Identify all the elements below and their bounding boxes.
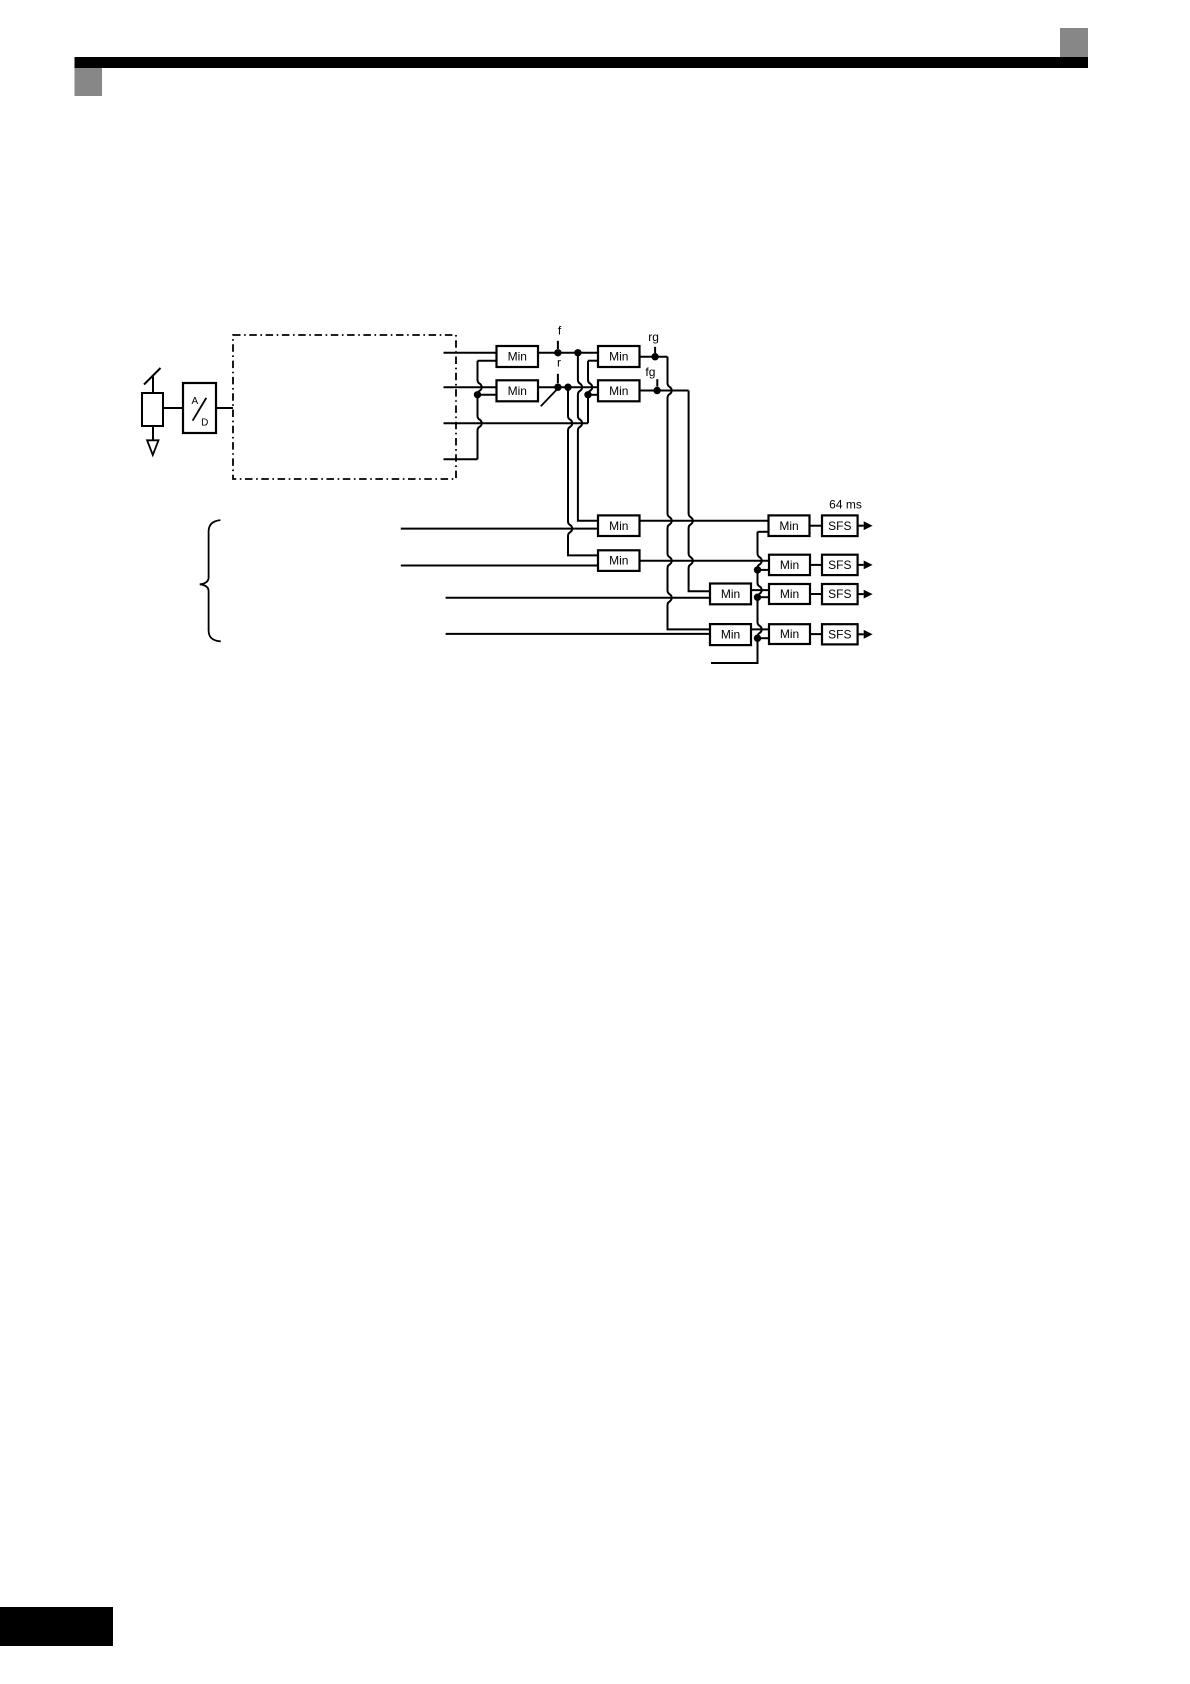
block SFS2 (822, 555, 858, 575)
block SFS1 (822, 515, 858, 536)
wire U3a to U4a (640, 520, 769, 522)
wire U21 output rg (640, 356, 668, 358)
block Min U4a (769, 515, 810, 536)
svg-text:Min: Min (609, 384, 628, 398)
footer page block (0, 1607, 113, 1646)
svg-text:Min: Min (779, 519, 798, 533)
svg-text:Min: Min (508, 384, 527, 398)
wire U4d to SFS4 (810, 633, 822, 635)
wire U4b to SFS2 (810, 564, 822, 566)
svg-text:SFS: SFS (828, 558, 851, 572)
block Min U3d (710, 624, 751, 645)
svg-text:Min: Min (609, 350, 628, 364)
block Min U11 (497, 346, 539, 367)
svg-text:Min: Min (609, 519, 628, 533)
junction dot rg (651, 353, 658, 360)
junction dot chain b (754, 566, 761, 573)
junction dot r branch (564, 384, 571, 391)
svg-text:Min: Min (609, 554, 628, 568)
wire band line 2 (444, 386, 497, 388)
block Min U4c (769, 584, 810, 604)
svg-text:Min: Min (780, 627, 799, 641)
block SFS4 (822, 624, 858, 644)
wire U3c to U4c (751, 589, 769, 591)
junction dot f (554, 349, 561, 356)
wire U3b to U4b (640, 560, 770, 562)
wire band line 1 (444, 352, 497, 354)
junction dot line3 node (584, 391, 591, 398)
wire U4a to SFS1 (810, 525, 823, 527)
wire input line 1 (401, 528, 598, 530)
header tab left (75, 68, 103, 96)
wire rg bus down to U3d (668, 357, 711, 630)
junction dot line4 node (474, 391, 481, 398)
dash-dot filterbank block (233, 335, 456, 479)
junction dot f branch (574, 349, 581, 356)
wire U3d to U4d (751, 628, 769, 630)
wire input line 2 (401, 565, 598, 567)
svg-text:Min: Min (780, 587, 799, 601)
svg-text:Min: Min (721, 628, 740, 642)
svg-text:Min: Min (780, 558, 799, 572)
wire band line 4 (444, 458, 478, 460)
wire antenna to A/D (163, 407, 183, 409)
node rg tick (654, 347, 656, 353)
wire f bus down to U3a (578, 353, 598, 521)
wire A/D to filterbank box (216, 407, 233, 409)
svg-text:SFS: SFS (828, 587, 851, 601)
wire chain bus with hops (711, 532, 769, 663)
wire band line 3 (444, 422, 589, 424)
output arrow 3 (858, 590, 873, 599)
wire line3 riser with hops (588, 361, 598, 424)
svg-text:Min: Min (508, 350, 527, 364)
output arrow 4 (858, 630, 873, 639)
svg-text:fg: fg (645, 365, 655, 379)
svg-text:r: r (557, 355, 561, 369)
wire U12 output to U22 (538, 386, 598, 388)
input group brace (200, 520, 221, 641)
block Min U3b (598, 550, 640, 571)
node r tick (557, 374, 559, 383)
wire fg bus down to U3c (689, 391, 710, 592)
header tab right (1060, 28, 1088, 57)
block Min U3a (598, 515, 640, 536)
svg-text:Min: Min (721, 587, 740, 601)
wire line4 riser with hops (478, 361, 497, 460)
svg-text:rg: rg (648, 330, 659, 344)
block Min U21 (598, 346, 640, 367)
node f tick (557, 341, 559, 349)
output arrow 1 (858, 521, 873, 530)
wire input line 4 (446, 633, 710, 635)
node fg tick (656, 379, 658, 386)
svg-text:64 ms: 64 ms (829, 497, 862, 511)
ground arrow (147, 426, 158, 455)
antenna element box (142, 393, 163, 426)
junction dot r (554, 384, 561, 391)
output arrow 2 (858, 561, 873, 570)
junction dot chain d (754, 635, 761, 642)
block SFS3 (822, 584, 858, 604)
wire U11 output to U21 (538, 352, 598, 354)
svg-text:f: f (558, 324, 562, 338)
svg-text:SFS: SFS (828, 519, 851, 533)
switch arm (541, 388, 559, 407)
wire U4c to SFS3 (810, 593, 822, 595)
block Min U4b (769, 555, 810, 575)
wire input line 3 (446, 597, 710, 599)
antenna symbol (144, 368, 161, 393)
svg-text:D: D (201, 417, 208, 428)
block Min U22 (598, 380, 640, 401)
junction dot fg (653, 387, 660, 394)
A/D converter U1 (183, 383, 216, 433)
block Min U4d (769, 624, 810, 644)
block Min U12 (497, 380, 539, 401)
header rule bar (75, 57, 1089, 68)
svg-text:A: A (191, 396, 198, 407)
block Min U3c (710, 584, 751, 605)
junction dot chain c (754, 594, 761, 601)
wire U22 output fg (640, 390, 689, 392)
svg-text:SFS: SFS (828, 627, 851, 641)
wire r bus down to U3b (568, 387, 598, 555)
